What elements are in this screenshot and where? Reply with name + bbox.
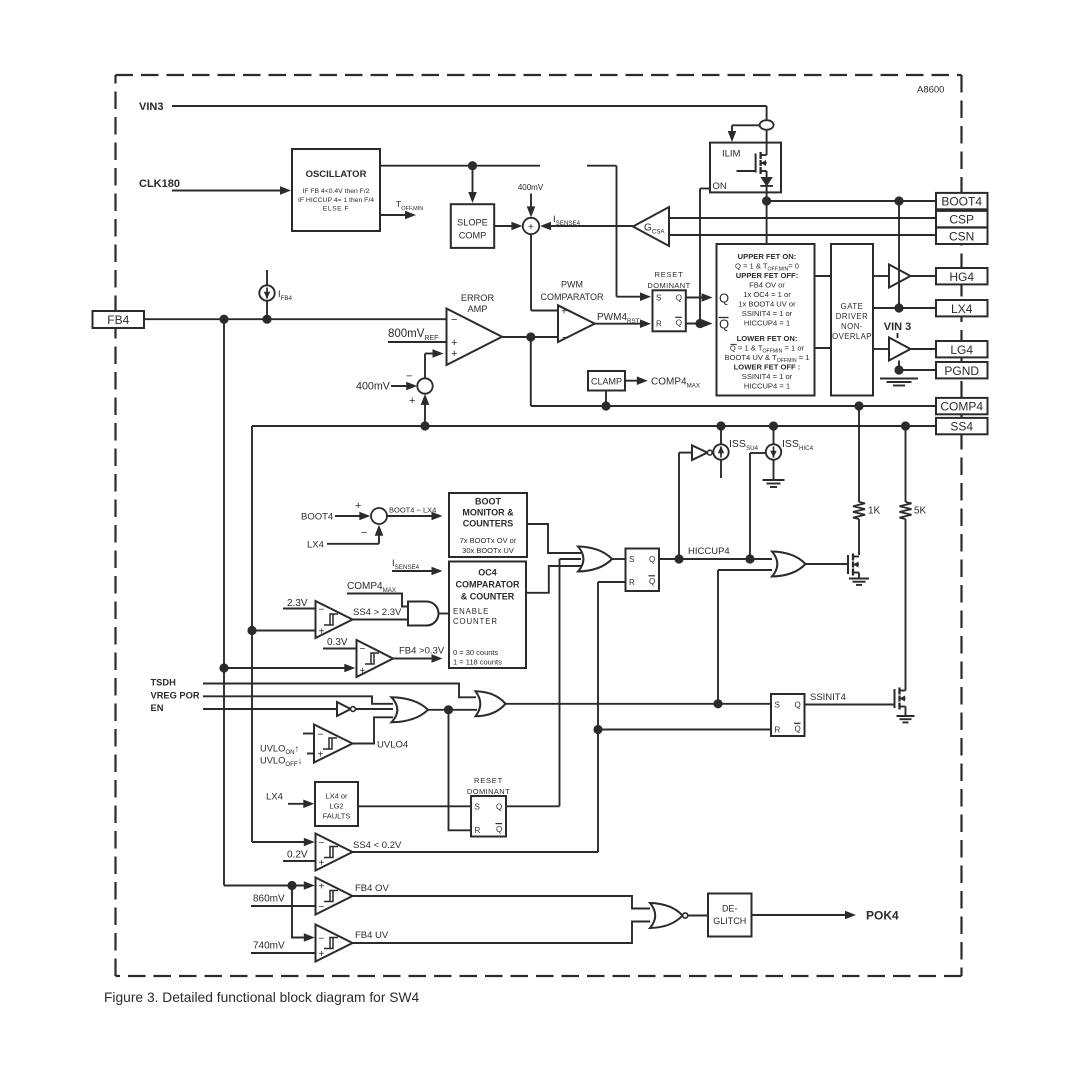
junction PGND bbox=[894, 365, 903, 374]
wire TSDH bbox=[203, 684, 476, 698]
slope comp block bbox=[472, 166, 474, 194]
wire 0.3V comp to OC4 bbox=[393, 658, 433, 660]
svg-text:COMP4: COMP4 bbox=[940, 400, 983, 414]
svg-text:SSINIT4 = 1 or: SSINIT4 = 1 or bbox=[742, 372, 793, 381]
junction hiccup to ISS SU4 inverter bbox=[674, 554, 683, 563]
svg-text:ILIM: ILIM bbox=[722, 149, 741, 160]
svg-text:R: R bbox=[475, 826, 481, 835]
svg-text:COMPARATOR: COMPARATOR bbox=[456, 580, 520, 590]
svg-text:COMPARATOR: COMPARATOR bbox=[540, 292, 604, 302]
svg-text:LX4: LX4 bbox=[266, 792, 283, 803]
svg-text:OC4: OC4 bbox=[478, 568, 497, 578]
svg-text:EN: EN bbox=[151, 703, 164, 713]
svg-text:NON-: NON- bbox=[841, 322, 863, 331]
wire lower latch Q up to hiccup OR bbox=[506, 805, 560, 807]
wire slope comp to summer bbox=[494, 225, 513, 227]
transistor ILIM pass FET bbox=[766, 130, 768, 155]
svg-text:ON: ON bbox=[713, 181, 727, 192]
port FB4 bbox=[93, 311, 145, 328]
wire SSINIT4 Q to NMOS gate bbox=[805, 704, 895, 706]
junction LX4 bbox=[894, 303, 903, 312]
svg-text:COUNTER: COUNTER bbox=[453, 617, 498, 626]
buffer HG4 bbox=[889, 265, 911, 288]
wire EN inverter to OR bbox=[355, 708, 393, 710]
svg-text:Q: Q bbox=[719, 291, 729, 306]
svg-text:−: − bbox=[319, 838, 325, 849]
svg-text:A8600: A8600 bbox=[917, 85, 944, 96]
summing junction 400mV/SS4 bbox=[417, 378, 432, 393]
svg-text:400mV: 400mV bbox=[356, 381, 391, 393]
svg-text:+: + bbox=[319, 858, 325, 869]
svg-text:BOOT4 − LX4: BOOT4 − LX4 bbox=[389, 506, 436, 515]
svg-text:FB4 OV: FB4 OV bbox=[355, 883, 389, 894]
wire AND to OC4 enable bbox=[439, 613, 450, 615]
wire error amp output to PWM minus input bbox=[502, 336, 558, 338]
svg-text:S: S bbox=[629, 555, 634, 564]
wire driver to LG4 buffer bbox=[873, 348, 889, 350]
wire TOFF,MIN output bbox=[380, 214, 406, 216]
comparator FB4 UV bbox=[316, 925, 353, 962]
svg-text:−: − bbox=[451, 314, 457, 326]
svg-text:S: S bbox=[775, 700, 780, 709]
svg-text:7x BOOTx OV or: 7x BOOTx OV or bbox=[460, 536, 517, 545]
deglitch block bbox=[708, 894, 752, 937]
inverter before ISS SU4 bbox=[692, 445, 707, 460]
wire fault to lower latch R bbox=[449, 710, 472, 831]
svg-text:1 = 118 counts: 1 = 118 counts bbox=[453, 658, 502, 667]
OR gate COMP4 discharge bbox=[772, 552, 806, 577]
wire latch R from SS4<0.2V bbox=[598, 581, 626, 583]
svg-text:S: S bbox=[475, 802, 480, 811]
svg-text:S: S bbox=[656, 294, 661, 303]
svg-text:FB4 >0.3V: FB4 >0.3V bbox=[399, 646, 445, 657]
wire 860mV threshold bbox=[251, 905, 316, 907]
svg-text:R: R bbox=[629, 578, 635, 587]
current source IFB4 bbox=[266, 270, 268, 285]
wire LX4 line bbox=[873, 307, 936, 309]
svg-text:& COUNTER: & COUNTER bbox=[461, 592, 515, 602]
svg-text:Q: Q bbox=[496, 825, 502, 834]
svg-text:ELSE F: ELSE F bbox=[323, 206, 349, 213]
wire CSN sense line bbox=[669, 234, 936, 236]
port BOOT4 bbox=[936, 193, 988, 209]
svg-text:0.2V: 0.2V bbox=[287, 850, 308, 861]
comparator UVLO bbox=[303, 733, 314, 735]
svg-text:1K: 1K bbox=[868, 506, 881, 517]
svg-text:2.3V: 2.3V bbox=[287, 598, 308, 609]
junction R line bbox=[593, 725, 602, 734]
port SS4 bbox=[936, 418, 988, 434]
svg-text:HICCUP4: HICCUP4 bbox=[688, 546, 730, 557]
svg-text:Q: Q bbox=[676, 319, 682, 328]
svg-text:SSINIT4: SSINIT4 bbox=[810, 692, 846, 703]
wire FB4 sense to 0.3V comparator bbox=[224, 667, 346, 669]
svg-text:1x OC4 = 1 or: 1x OC4 = 1 or bbox=[743, 290, 791, 299]
svg-text:UPPER FET OFF:: UPPER FET OFF: bbox=[736, 271, 798, 280]
wire master fault to SSINIT4 latch S bbox=[506, 703, 772, 705]
svg-text:Figure 3. Detailed functional: Figure 3. Detailed functional block diag… bbox=[104, 990, 420, 1005]
wire FB4 UV to NOR bbox=[353, 922, 651, 944]
amplifier GCSA bbox=[633, 207, 669, 246]
svg-text:COUNTERS: COUNTERS bbox=[463, 519, 514, 529]
wire bootstrap BOOT4 down to LX4 bbox=[898, 201, 900, 308]
wire UVLO threshold input bbox=[307, 753, 314, 755]
svg-text:RESET: RESET bbox=[654, 270, 683, 279]
svg-text:IF HICCUP 4= 1 then F/4: IF HICCUP 4= 1 then F/4 bbox=[298, 197, 374, 204]
junction FB4 at IFB4 bbox=[262, 315, 271, 324]
buffer LG4 bbox=[889, 338, 911, 361]
junction ISS HIC4 tap bbox=[745, 554, 754, 563]
latch SSINIT4 bbox=[771, 694, 805, 736]
wire FET logic upper output bbox=[815, 275, 832, 277]
wire NOR to deglitch bbox=[688, 915, 708, 917]
wire FB4 sense drop bbox=[223, 319, 225, 885]
svg-text:DRIVER: DRIVER bbox=[836, 312, 868, 321]
wire discharge OR to NMOS gate bbox=[806, 563, 849, 565]
wire 800mVREF input bbox=[388, 341, 447, 343]
svg-text:COMP: COMP bbox=[459, 231, 487, 241]
svg-text:HICCUP4 = 1: HICCUP4 = 1 bbox=[744, 319, 790, 328]
wire PWM4RST output bbox=[595, 323, 641, 325]
svg-text:OSCILLATOR: OSCILLATOR bbox=[306, 169, 367, 180]
svg-text:−: − bbox=[562, 332, 568, 344]
wire summer to boot monitor bbox=[387, 515, 433, 517]
svg-text:FAULTS: FAULTS bbox=[323, 812, 351, 821]
wire COMP4 to 1K resistor bbox=[858, 406, 860, 502]
svg-text:HICCUP4 = 1: HICCUP4 = 1 bbox=[744, 382, 790, 391]
wire fault line to discharge OR bbox=[718, 569, 772, 571]
svg-text:DE-: DE- bbox=[722, 904, 738, 914]
junction SS4 at ISS SU4 bbox=[716, 421, 725, 430]
junction OV/UV sense bbox=[287, 881, 296, 890]
svg-text:DOMINANT: DOMINANT bbox=[467, 787, 510, 796]
svg-text:LX4: LX4 bbox=[307, 540, 324, 551]
LX4/LG2 faults block bbox=[315, 782, 358, 826]
ground discharge NMOS bbox=[849, 578, 869, 580]
wire SS4<0.2V output bbox=[353, 851, 599, 853]
junction clamp-COMP4 bbox=[601, 401, 610, 410]
AND gate enable counter bbox=[408, 602, 439, 626]
svg-text:LOWER FET OFF :: LOWER FET OFF : bbox=[734, 363, 801, 372]
svg-text:CSN: CSN bbox=[949, 229, 974, 243]
wire HICCUP4 to inverter bbox=[679, 452, 692, 454]
svg-text:CSP: CSP bbox=[949, 213, 974, 227]
junction clock to slope comp bbox=[468, 161, 477, 170]
wire 0.2V threshold bbox=[283, 860, 316, 862]
svg-text:LOWER FET ON:: LOWER FET ON: bbox=[737, 334, 798, 343]
wire 400mV into summer bbox=[391, 385, 408, 387]
svg-text:−: − bbox=[319, 605, 325, 616]
svg-text:BOOT4: BOOT4 bbox=[941, 195, 982, 209]
wire summer to PWM plus input bbox=[530, 234, 532, 310]
wire soft-start ref into error amp bbox=[424, 354, 426, 379]
wire VIN3 to LG4 buffer bbox=[897, 333, 899, 338]
svg-text:AMP: AMP bbox=[468, 304, 488, 314]
wire SS4 to 5K resistor bbox=[905, 426, 907, 502]
wire hiccup OR to latch S bbox=[612, 558, 626, 560]
svg-text:OVERLAP: OVERLAP bbox=[832, 332, 872, 341]
svg-text:ENABLE: ENABLE bbox=[453, 607, 489, 616]
wire 400mV into summer bbox=[530, 194, 532, 209]
svg-text:R: R bbox=[656, 320, 662, 329]
junction BOOT4 to LX4 strap bbox=[894, 196, 903, 205]
resistor 5K bbox=[900, 502, 912, 519]
wire 740mV threshold bbox=[251, 952, 316, 954]
svg-text:IF FB 4<0.4V then F/2: IF FB 4<0.4V then F/2 bbox=[302, 188, 369, 195]
wire HICCUP4 to ISS HIC4 bbox=[749, 453, 751, 559]
wire SS4 net bbox=[252, 425, 936, 427]
wire POK4 output bbox=[752, 914, 847, 916]
svg-text:+: + bbox=[319, 949, 325, 960]
junction fault to discharge OR bbox=[713, 699, 722, 708]
wire clamp output bbox=[625, 380, 638, 382]
svg-text:PGND: PGND bbox=[944, 364, 979, 378]
svg-text:+: + bbox=[409, 395, 415, 407]
oscillator block bbox=[292, 149, 380, 231]
svg-text:−: − bbox=[406, 371, 412, 383]
svg-text:DOMINANT: DOMINANT bbox=[647, 281, 690, 290]
svg-text:FB4 UV: FB4 UV bbox=[355, 930, 389, 941]
OR gate hiccup set bbox=[578, 547, 612, 572]
NOR gate power-ok bbox=[650, 903, 683, 928]
wire ON control from Qbar bbox=[700, 188, 710, 190]
svg-text:−: − bbox=[361, 527, 367, 539]
summing junction S1 bbox=[523, 218, 539, 234]
wire SS4 sense drop bbox=[251, 426, 253, 842]
junction ON-Qbar bbox=[695, 319, 704, 328]
pin circle above ILIM bbox=[760, 120, 774, 130]
junction error amp output bbox=[526, 332, 535, 341]
wire oscillator clock output bbox=[380, 165, 540, 167]
wire latch Q to FET logic bbox=[686, 297, 703, 299]
svg-text:LG2: LG2 bbox=[329, 802, 343, 811]
svg-text:ERROR: ERROR bbox=[461, 293, 495, 303]
svg-text:860mV: 860mV bbox=[253, 894, 285, 905]
svg-text:PWM: PWM bbox=[561, 280, 583, 290]
svg-text:Q: Q bbox=[649, 577, 655, 586]
wire UVLO4 to OR bbox=[353, 717, 394, 743]
wire lower latch Q to hiccup OR bbox=[560, 558, 582, 560]
transistor COMP4 discharge NMOS bbox=[847, 555, 849, 574]
junction SS4 at soft-start ref bbox=[420, 421, 429, 430]
ground ISS HIC4 bbox=[763, 479, 785, 481]
wire EN bbox=[203, 708, 337, 710]
wire CLK180 into oscillator bbox=[172, 190, 281, 192]
wire ISENSE4 into OC4 bbox=[392, 570, 433, 572]
svg-text:MONITOR &: MONITOR & bbox=[462, 508, 514, 518]
wire clamp to COMP4 net bbox=[605, 391, 607, 407]
wire LX4 into faults block bbox=[288, 803, 305, 805]
junction COMP4 to 1K leg bbox=[854, 401, 863, 410]
OC4 comparator block bbox=[449, 562, 526, 669]
junction SS4 at 5K leg bbox=[901, 421, 910, 430]
wire OC4 output to hiccup OR bbox=[526, 566, 581, 593]
wire ILIM to FET-logic box bbox=[766, 201, 768, 244]
svg-text:FB4: FB4 bbox=[107, 313, 129, 327]
current source ISS SU4 bbox=[720, 426, 722, 444]
port HG4 bbox=[936, 268, 988, 284]
gate driver non-overlap block bbox=[831, 244, 873, 396]
svg-text:+: + bbox=[528, 221, 534, 233]
svg-text:CLK180: CLK180 bbox=[139, 178, 180, 190]
svg-text:+: + bbox=[319, 627, 325, 638]
svg-text:Q: Q bbox=[496, 802, 502, 811]
resistor 1K bbox=[853, 502, 865, 519]
svg-text:R: R bbox=[775, 726, 781, 735]
ILIM block bbox=[710, 143, 781, 193]
inverter EN bbox=[337, 702, 351, 716]
junction FB4 sense at 0.3V comp bbox=[219, 663, 228, 672]
wire FB4 OV to NOR bbox=[353, 896, 651, 909]
svg-text:−: − bbox=[319, 934, 325, 945]
wire boot monitor to hiccup OR bbox=[527, 524, 581, 553]
diode below ILIM FET bbox=[766, 171, 768, 178]
junction fault to lower latch R bbox=[444, 705, 453, 714]
wire HG4 output bbox=[911, 275, 937, 277]
svg-text:+: + bbox=[451, 348, 457, 360]
svg-text:SLOPE: SLOPE bbox=[457, 218, 488, 228]
svg-text:UVLO4: UVLO4 bbox=[377, 740, 408, 751]
wire HICCUP4 net bbox=[659, 558, 772, 560]
node BOOT4 rail bbox=[762, 196, 771, 205]
svg-text:Q: Q bbox=[719, 317, 729, 332]
svg-text:TSDH: TSDH bbox=[151, 678, 177, 688]
svg-text:UPPER FET ON:: UPPER FET ON: bbox=[738, 252, 797, 261]
current source ISS HIC4 bbox=[773, 426, 775, 444]
port LX4 bbox=[936, 300, 988, 316]
OR gate enable faults bbox=[392, 697, 429, 722]
junction SS4 at ISS HIC4 bbox=[769, 421, 778, 430]
wire ISENSE4 from GCSA to summer bbox=[550, 225, 633, 227]
ground SSINIT4 NMOS bbox=[897, 715, 915, 717]
port CSP bbox=[936, 211, 988, 227]
wire FET logic lower output bbox=[815, 347, 832, 349]
svg-text:LX4: LX4 bbox=[951, 302, 973, 316]
svg-text:5K: 5K bbox=[914, 506, 927, 517]
wire LG4 buffer ground to PGND bbox=[898, 361, 900, 371]
svg-text:POK4: POK4 bbox=[866, 909, 899, 923]
svg-text:−: − bbox=[318, 730, 324, 741]
wire PGND line bbox=[899, 369, 936, 371]
svg-text:GATE: GATE bbox=[841, 302, 864, 311]
wire SS4 into summer bbox=[424, 403, 426, 426]
wire VREG POR bbox=[203, 696, 393, 704]
svg-text:Q: Q bbox=[649, 555, 655, 564]
wire driver to HG4 buffer bbox=[873, 275, 889, 277]
svg-text:BOOT4: BOOT4 bbox=[301, 512, 333, 523]
svg-text:SS4: SS4 bbox=[950, 420, 973, 434]
wire FB4 sense to OV comparator bbox=[224, 885, 306, 887]
dashed chip boundary A8600 bbox=[116, 75, 962, 976]
svg-text:BOOT: BOOT bbox=[475, 497, 502, 507]
wire CSP sense line bbox=[669, 217, 936, 219]
svg-text:0 = 30 counts: 0 = 30 counts bbox=[453, 648, 498, 657]
svg-text:RESET: RESET bbox=[474, 776, 503, 785]
svg-text:LG4: LG4 bbox=[950, 343, 973, 357]
svg-text:30x BOOTx UV: 30x BOOTx UV bbox=[462, 546, 514, 555]
svg-text:VIN3: VIN3 bbox=[139, 101, 163, 113]
svg-text:HG4: HG4 bbox=[949, 270, 974, 284]
transistor SSINIT4 discharge NMOS bbox=[894, 689, 896, 708]
svg-text:VREG POR: VREG POR bbox=[151, 690, 200, 700]
svg-text:1x BOOT4 UV or: 1x BOOT4 UV or bbox=[738, 300, 796, 309]
port COMP4 bbox=[936, 398, 988, 414]
svg-text:+: + bbox=[318, 750, 324, 761]
svg-text:−: − bbox=[360, 644, 366, 655]
svg-text:+: + bbox=[561, 306, 567, 318]
wire LG4 output bbox=[911, 348, 937, 350]
svg-text:CLAMP: CLAMP bbox=[591, 377, 622, 387]
svg-text:VIN 3: VIN 3 bbox=[884, 321, 912, 333]
svg-text:Q: Q bbox=[795, 725, 801, 734]
wire pin to ILIM block bbox=[732, 124, 760, 126]
boot monitor block bbox=[449, 493, 527, 557]
wire BOOT4 into summer bbox=[335, 515, 361, 517]
wire VIN3 to ILIM pin bbox=[766, 106, 768, 120]
wire 2.3V comp to AND bbox=[353, 619, 409, 621]
svg-text:GLITCH: GLITCH bbox=[713, 916, 746, 926]
wire SS4 sense to 2.3V comparator bbox=[252, 630, 316, 632]
comparator FB4 OV bbox=[316, 878, 353, 915]
svg-text:400mV: 400mV bbox=[518, 183, 544, 192]
wire FB4 line bbox=[144, 318, 447, 320]
ground PGND bbox=[880, 378, 918, 380]
svg-text:SS4 > 2.3V: SS4 > 2.3V bbox=[353, 607, 402, 618]
svg-text:SS4 < 0.2V: SS4 < 0.2V bbox=[353, 840, 402, 851]
clamp block bbox=[588, 371, 625, 391]
svg-text:Q: Q bbox=[676, 294, 682, 303]
summing junction BOOT4-LX4 bbox=[371, 508, 387, 524]
svg-text:SSINIT4 = 1 or: SSINIT4 = 1 or bbox=[742, 309, 793, 318]
junction FB4 sense drop bbox=[219, 315, 228, 324]
wire SSINIT4 R line bbox=[598, 729, 771, 731]
port PGND bbox=[936, 362, 988, 378]
wire OR1 to OR2 bbox=[428, 709, 477, 711]
svg-text:0.3V: 0.3V bbox=[327, 637, 348, 648]
wire COMP4MAX to AND bbox=[347, 594, 408, 607]
wire COMP4 net bbox=[530, 337, 532, 406]
svg-text:740mV: 740mV bbox=[253, 941, 285, 952]
wire latch Qbar to FET logic bbox=[686, 323, 703, 325]
port LG4 bbox=[936, 341, 988, 357]
comparator SS4<0.2V bbox=[252, 841, 311, 843]
svg-text:LX4 or: LX4 or bbox=[325, 792, 348, 801]
svg-text:Q: Q bbox=[795, 700, 801, 709]
svg-text:−: − bbox=[319, 902, 325, 913]
junction SS4 sense at 2.3V comp bbox=[247, 626, 256, 635]
port CSN bbox=[936, 228, 988, 244]
latch HICCUP reset-dominant bbox=[626, 549, 660, 592]
svg-text:+: + bbox=[319, 882, 325, 893]
wire faults block to latch S bbox=[358, 805, 471, 807]
wire VIN3 rail bbox=[172, 105, 767, 107]
wire LX4 into summer bbox=[327, 543, 379, 545]
svg-text:+: + bbox=[360, 666, 366, 677]
OR gate master fault bbox=[476, 691, 506, 716]
FET on/off logic block bbox=[717, 244, 815, 396]
svg-text:+: + bbox=[355, 500, 361, 512]
wire sense branch to UV comparator bbox=[292, 886, 306, 938]
svg-text:FB4 OV or: FB4 OV or bbox=[749, 281, 785, 290]
